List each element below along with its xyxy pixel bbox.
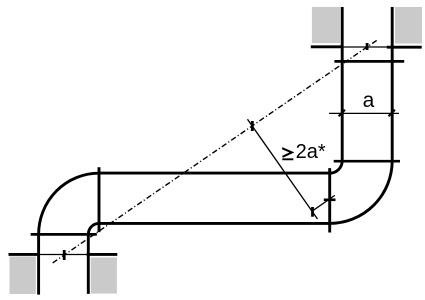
flange joint upper on riser: [334, 60, 404, 63]
dimension line a across riser: [329, 112, 399, 114]
bottom wall surface edge right segment: [87, 253, 118, 256]
top wall opening line (thin): [342, 46, 393, 48]
centreline (dash-dot) wall penetration to wall penetration: [51, 40, 377, 264]
duct riser top-right, left wall line + inner elbow arc: [330, 7, 343, 173]
wall block bottom-right (grey): [91, 258, 117, 294]
oblique dimension tick left (a): [339, 110, 345, 116]
flange joint below left elbow: [31, 233, 97, 236]
dimension line >=2a* (perpendicular to centreline): [248, 119, 318, 219]
duct riser top-right, right wall line + outer elbow arc: [330, 7, 393, 223]
horizontal duct bottom wall line: [99, 222, 330, 225]
auxiliary line parallel to centreline through duct corner axis: [314, 195, 335, 210]
joint line left end of horizontal duct: [98, 167, 101, 232]
joint line right end of horizontal duct: [328, 168, 331, 232]
tick at bottom wall penetration: [63, 250, 66, 260]
bottom wall opening line (thin): [40, 254, 87, 256]
tick at top wall penetration: [366, 43, 369, 50]
tick on centreline (dimension origin): [251, 121, 254, 131]
svg-text:a: a: [363, 89, 375, 112]
top wall surface edge left segment: [311, 45, 342, 48]
top wall surface edge right segment: [387, 46, 422, 49]
svg-text:2a*: 2a*: [296, 141, 326, 163]
wall block top-left (grey): [312, 7, 340, 43]
wall block top-right (grey): [395, 7, 422, 44]
flange joint lower on riser (elbow joint): [334, 160, 400, 163]
horizontal duct top wall line: [99, 172, 330, 175]
bottom wall surface edge left segment: [9, 253, 41, 256]
oblique dimension tick right (a): [389, 110, 395, 116]
wall block bottom-left (grey): [10, 257, 36, 295]
tick on auxiliary axis line (dimension end): [311, 207, 314, 217]
axis tick on right joint line: [324, 199, 336, 202]
label >= sign (greater-equal, drawn): [282, 148, 293, 159]
duct drop bottom-left, right wall line + inner elbow arc: [88, 223, 99, 294]
duct drop bottom-left, left wall line + outer elbow arc: [39, 173, 99, 294]
